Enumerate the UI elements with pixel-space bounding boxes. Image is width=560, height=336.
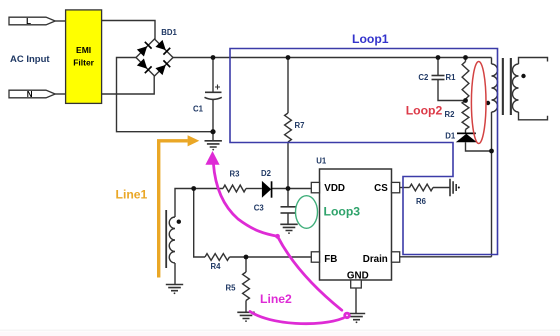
svg-text:GND: GND bbox=[347, 270, 369, 281]
svg-text:R7: R7 bbox=[295, 121, 305, 130]
svg-text:Loop1: Loop1 bbox=[352, 32, 389, 46]
svg-text:R3: R3 bbox=[230, 170, 241, 179]
svg-text:Line2: Line2 bbox=[260, 292, 292, 306]
svg-text:U1: U1 bbox=[316, 156, 327, 165]
svg-text:C1: C1 bbox=[193, 105, 204, 114]
svg-text:FB: FB bbox=[324, 254, 337, 265]
svg-text:C2: C2 bbox=[418, 73, 429, 82]
svg-text:Loop2: Loop2 bbox=[406, 103, 443, 117]
svg-text:R2: R2 bbox=[445, 110, 456, 119]
svg-text:R1: R1 bbox=[446, 73, 457, 82]
svg-text:Loop3: Loop3 bbox=[324, 204, 361, 218]
svg-text:EMI: EMI bbox=[76, 45, 91, 55]
svg-text:Filter: Filter bbox=[73, 57, 94, 67]
svg-text:R6: R6 bbox=[416, 197, 427, 206]
svg-text:BD1: BD1 bbox=[161, 28, 177, 37]
svg-text:Drain: Drain bbox=[363, 254, 388, 265]
svg-text:D1: D1 bbox=[445, 132, 456, 141]
svg-text:VDD: VDD bbox=[324, 183, 345, 194]
svg-text:R5: R5 bbox=[226, 284, 237, 293]
svg-text:N: N bbox=[27, 90, 33, 99]
svg-text:Line1: Line1 bbox=[116, 188, 148, 202]
svg-text:AC Input: AC Input bbox=[10, 54, 50, 65]
svg-text:L: L bbox=[26, 17, 31, 26]
svg-text:C3: C3 bbox=[254, 204, 265, 213]
svg-text:CS: CS bbox=[374, 183, 388, 194]
svg-text:D2: D2 bbox=[261, 169, 272, 178]
svg-text:R4: R4 bbox=[211, 262, 222, 271]
